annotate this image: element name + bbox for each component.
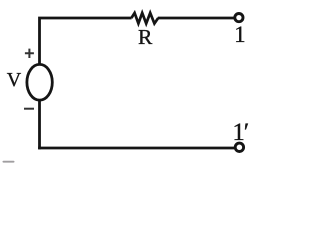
resistor R1 zigzag [131, 13, 158, 24]
terminal node 1 (open circle) [235, 14, 243, 22]
stray scan mark bottom-left [3, 161, 15, 163]
svg-text:1: 1 [234, 22, 246, 47]
terminal node 1' (open circle) [235, 143, 243, 151]
wire: top rail left segment (corner to resistor) [40, 18, 132, 65]
wire: top rail right segment (resistor to terminal 1) [158, 17, 234, 20]
polarity plus sign [25, 49, 34, 58]
svg-text:R: R [138, 25, 153, 49]
polarity minus sign [24, 108, 34, 110]
wire: left vertical lower segment (source to bottom rail) [38, 100, 41, 149]
wire: bottom rail (to terminal 1') [38, 147, 234, 150]
svg-text:1′: 1′ [232, 119, 249, 146]
voltage source V1 (ellipse) [27, 64, 52, 100]
svg-text:V: V [7, 69, 22, 91]
